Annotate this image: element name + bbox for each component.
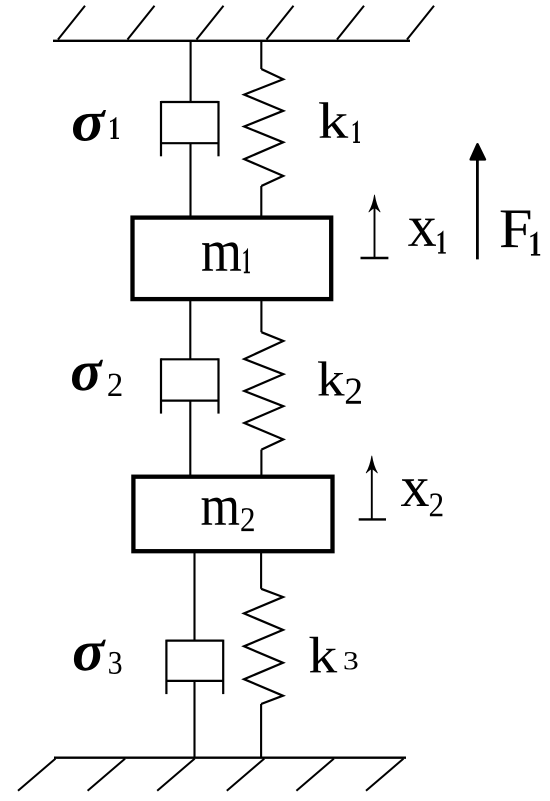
wire mass m1 to damper sigma2 — [189, 299, 191, 359]
damper sigma3 — [166, 640, 223, 695]
wire mass m2 to damper sigma3 — [193, 551, 195, 640]
label k3 — [309, 637, 357, 673]
spring k1 — [244, 69, 283, 186]
label x2 — [401, 479, 442, 516]
label F1 — [501, 211, 541, 256]
wire ceiling to damper sigma1 — [190, 41, 192, 102]
label k1 — [319, 102, 360, 143]
wire damper sigma2 to mass m2 — [189, 401, 191, 477]
label m2 — [202, 498, 254, 532]
wire mass m1 to spring k2 — [260, 299, 262, 332]
force arrow F1 — [471, 144, 485, 259]
mass m2 — [133, 477, 332, 552]
spring k3 — [244, 589, 283, 704]
damper sigma1 — [161, 101, 219, 156]
arrow x1 — [361, 195, 389, 258]
wire mass m2 to spring k3 — [260, 551, 262, 589]
ground hatching — [18, 759, 404, 791]
ceiling line — [53, 40, 410, 42]
wire damper sigma3 to ground — [193, 681, 195, 758]
label x1 — [408, 219, 446, 254]
wire spring k3 to ground — [260, 704, 262, 758]
wire spring k2 to mass m2 — [260, 450, 262, 477]
mass m1 — [133, 218, 332, 300]
label sigma3 — [74, 640, 122, 674]
label sigma2 — [72, 360, 121, 396]
ceiling hatching — [58, 6, 434, 40]
arrow x2 — [359, 456, 386, 520]
wire spring k1 to mass m1 — [260, 186, 262, 218]
label k2 — [318, 361, 361, 403]
label sigma1 — [73, 110, 119, 141]
spring k2 — [244, 332, 283, 449]
wire damper sigma1 to mass m1 — [189, 143, 191, 217]
damper sigma2 — [161, 358, 219, 413]
label m1 — [202, 242, 250, 273]
wire ceiling to spring k1 — [260, 41, 262, 69]
ground line — [54, 757, 406, 759]
